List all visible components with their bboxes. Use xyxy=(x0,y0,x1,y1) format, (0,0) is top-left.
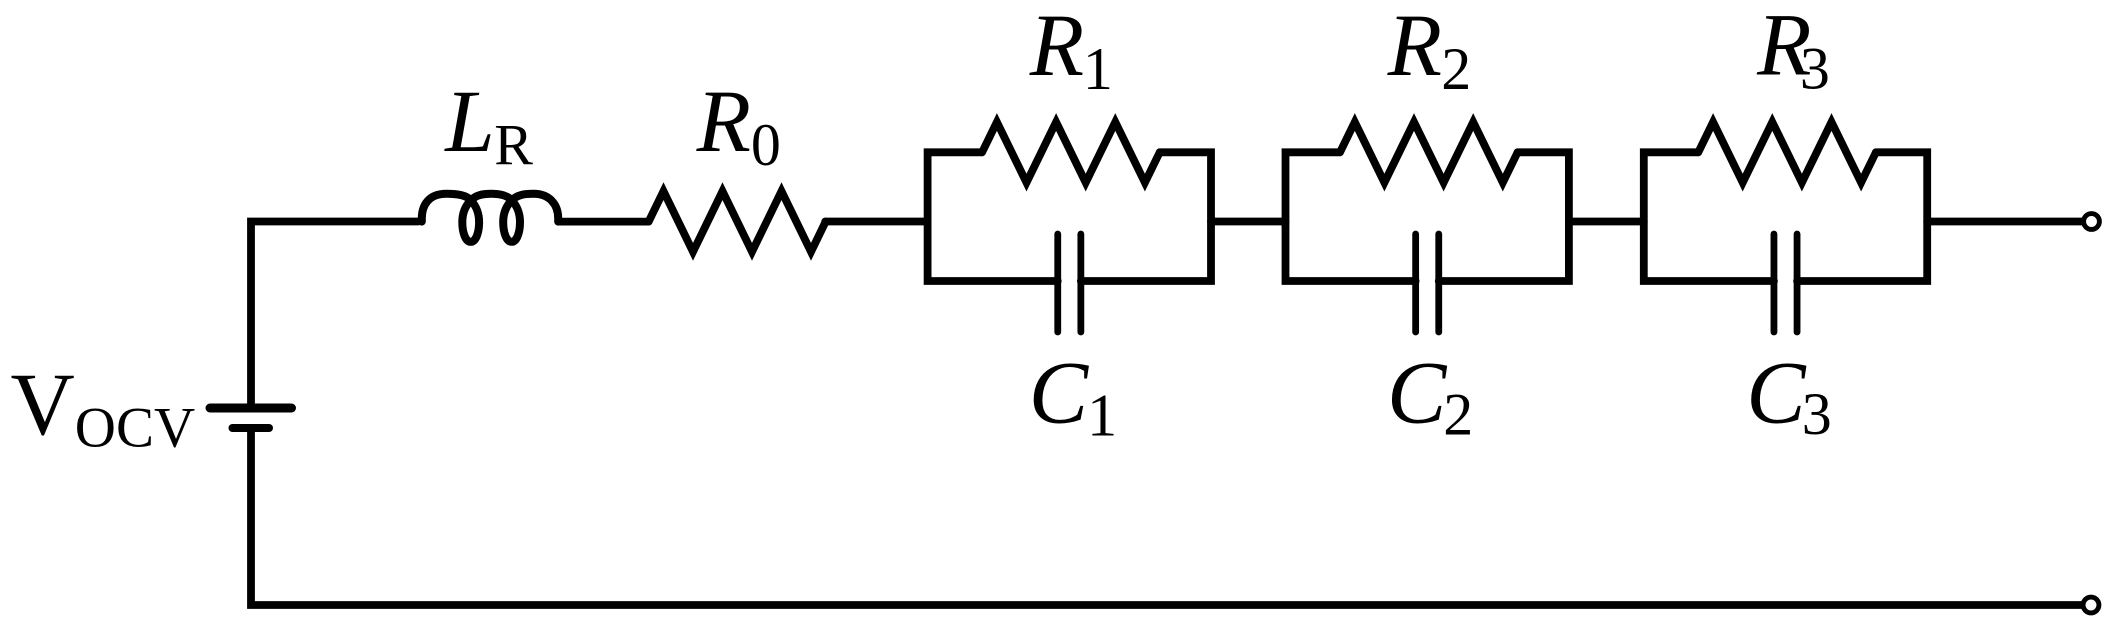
resistor R1 zigzag xyxy=(982,122,1160,183)
battery V_OCV long plate xyxy=(210,404,292,413)
svg-text:R: R xyxy=(696,73,751,171)
wire battery to bottom rail xyxy=(251,429,2082,605)
svg-text:C: C xyxy=(1746,345,1807,443)
RC block 2 frame xyxy=(1286,152,1569,281)
svg-text:0: 0 xyxy=(751,112,781,178)
svg-text:C: C xyxy=(1387,345,1448,443)
svg-text:R: R xyxy=(494,112,533,177)
resistor R0 zigzag xyxy=(649,191,826,252)
svg-text:3: 3 xyxy=(1802,381,1832,447)
battery V_OCV short plate xyxy=(233,424,270,432)
inductor L_R coil xyxy=(422,194,558,242)
capacitor C2 plates xyxy=(1416,234,1439,332)
wire inductor to R0 xyxy=(558,218,649,226)
svg-text:OCV: OCV xyxy=(75,397,195,460)
svg-text:3: 3 xyxy=(1800,36,1830,102)
svg-text:2: 2 xyxy=(1443,382,1473,448)
wire RC block 3 to top terminal xyxy=(1927,218,2081,226)
svg-text:C: C xyxy=(1029,345,1090,443)
RC block 3 frame xyxy=(1644,152,1927,281)
svg-text:R: R xyxy=(1029,0,1084,95)
svg-text:2: 2 xyxy=(1441,36,1471,102)
terminal top-right xyxy=(2084,214,2100,230)
wire RC block 2 to next xyxy=(1569,218,1644,226)
wire top-left: battery to inductor xyxy=(251,222,418,408)
svg-text:1: 1 xyxy=(1083,36,1113,102)
RC block 1 frame xyxy=(928,152,1211,281)
svg-text:1: 1 xyxy=(1087,383,1117,449)
resistor R2 zigzag xyxy=(1340,122,1518,183)
svg-text:V: V xyxy=(11,356,75,454)
capacitor C1 plates xyxy=(1058,234,1081,332)
terminal bottom-right xyxy=(2083,597,2099,613)
svg-text:L: L xyxy=(443,73,495,171)
wire R0 to RC block 1 xyxy=(825,218,927,226)
wire RC block 1 to next xyxy=(1211,218,1286,226)
capacitor C3 plates xyxy=(1774,234,1797,332)
svg-text:R: R xyxy=(1387,0,1442,95)
resistor R3 zigzag xyxy=(1698,122,1876,183)
